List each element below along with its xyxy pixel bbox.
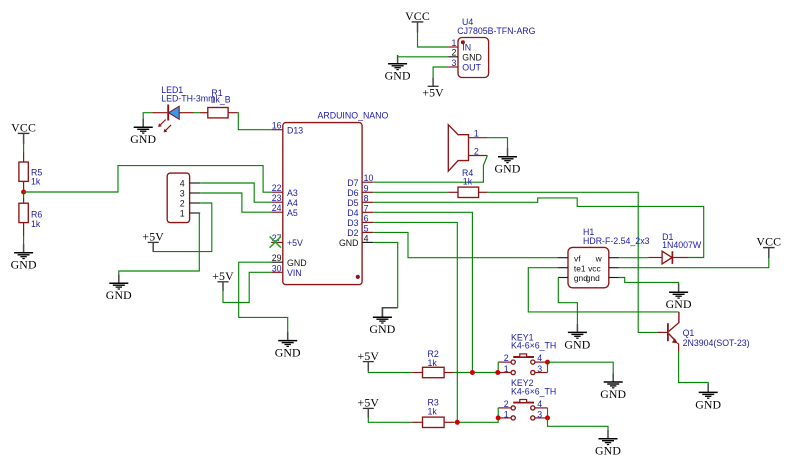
svg-text:30: 30 xyxy=(272,263,282,273)
wire H1 gnd(right) to ground xyxy=(619,278,679,285)
ground flag (KEY1) xyxy=(600,373,626,401)
svg-text:+5V: +5V xyxy=(287,238,303,248)
wire +5V to R3 xyxy=(368,418,412,422)
svg-text:VIN: VIN xyxy=(287,268,302,278)
resistor R5 xyxy=(19,153,42,192)
svg-text:1: 1 xyxy=(180,208,185,218)
pin 3 OUT (U4) xyxy=(448,58,481,73)
resistor R1 xyxy=(200,88,238,118)
ground flag (Q1 emitter) xyxy=(695,384,721,412)
pin 3 (KEY2) xyxy=(531,410,548,421)
svg-text:23: 23 xyxy=(272,193,282,203)
resistor R2 xyxy=(412,349,454,377)
node junction KEY2 pin3 xyxy=(545,415,550,420)
ground flag (H1 right gnd) xyxy=(666,284,692,312)
svg-text:1k_B: 1k_B xyxy=(211,95,231,105)
wire R5 to R6 xyxy=(23,191,25,198)
svg-text:4: 4 xyxy=(364,233,369,243)
svg-text:24: 24 xyxy=(272,203,282,213)
resistor R4 xyxy=(448,168,488,198)
wire KEY1 pin4 to GND xyxy=(548,362,614,373)
wire connector pin1 to GND xyxy=(119,213,200,275)
svg-text:10: 10 xyxy=(364,173,374,183)
svg-text:16: 16 xyxy=(272,121,282,131)
svg-text:D4: D4 xyxy=(347,208,358,218)
wire D6 pin9 to R4 xyxy=(373,191,448,193)
svg-text:1: 1 xyxy=(504,364,509,374)
node junction KEY1 pin1 xyxy=(495,370,500,375)
svg-text:LED-TH-3mm: LED-TH-3mm xyxy=(161,93,215,103)
power flag +5V (below U4 OUT) xyxy=(422,78,444,100)
svg-text:1k: 1k xyxy=(428,358,438,368)
wire H1 gnd(left) to ground xyxy=(558,278,577,324)
ground flag (speaker pin1) xyxy=(494,148,520,176)
wire VCC to R5 xyxy=(23,141,25,153)
wire R4 to Q1 base xyxy=(488,192,658,332)
wire R6 to GND xyxy=(23,237,25,245)
ground flag (U4 GND pin2) xyxy=(385,55,411,83)
pin 4 GND xyxy=(339,233,373,248)
pin 22 A3 xyxy=(271,183,298,198)
svg-text:1k: 1k xyxy=(31,177,41,187)
svg-text:4: 4 xyxy=(537,353,542,363)
svg-text:5: 5 xyxy=(364,223,369,233)
pin gnd (H1 right row3) xyxy=(586,273,619,283)
ground flag (H1 left gnd) xyxy=(564,324,590,352)
pin 1 (speaker) xyxy=(469,129,488,139)
wire KEY1 left pins xyxy=(497,362,499,372)
regulator U4 CJ7805B-TFN-ARG xyxy=(448,17,535,78)
pin 3 (connector) xyxy=(180,188,200,198)
pin 4 (KEY2) xyxy=(531,399,548,410)
pushbutton KEY2 K4-6x6_TH xyxy=(498,378,556,420)
wire H1 w to D1 anode xyxy=(619,257,648,259)
speaker xyxy=(448,125,487,172)
header H1 HDR-F-2.54_2x3 xyxy=(558,227,650,288)
MCU ARDUINO_NANO xyxy=(271,111,388,285)
power flag VCC net (right) xyxy=(756,235,781,259)
pin 1 IN (U4) xyxy=(448,38,471,53)
pushbutton KEY1 K4-6x6_TH xyxy=(498,332,556,374)
svg-text:D6: D6 xyxy=(347,188,358,198)
diode D1 1N4007W xyxy=(648,232,702,264)
svg-text:1k: 1k xyxy=(428,407,438,417)
pin 30 VIN xyxy=(271,263,301,278)
pin 8 D5 xyxy=(347,193,373,208)
node junction R5/R6/A3 xyxy=(21,190,26,195)
svg-text:w: w xyxy=(595,253,603,263)
pin 1 (connector) xyxy=(180,208,200,218)
svg-text:A5: A5 xyxy=(287,208,298,218)
svg-text:1: 1 xyxy=(504,410,509,420)
wire D5 pin8 to D1 cathode xyxy=(373,198,704,258)
pin 2 (KEY2) xyxy=(498,399,515,410)
pin gnd (H1 left row3) xyxy=(558,273,588,283)
svg-text:1N4007W: 1N4007W xyxy=(662,240,702,250)
transistor Q1 2N3904 xyxy=(658,312,750,352)
ground flag (connector pin1) xyxy=(106,275,132,303)
resistor R3 xyxy=(412,398,454,428)
pin vcc (H1 right row2) xyxy=(588,263,619,273)
svg-text:2: 2 xyxy=(451,48,456,58)
svg-text:ARDUINO_NANO: ARDUINO_NANO xyxy=(318,111,389,121)
pin 10 D7 xyxy=(347,173,373,188)
wire R1 to D13 pin16 xyxy=(238,113,272,130)
wire KEY2 left pins xyxy=(497,408,499,418)
svg-text:1: 1 xyxy=(451,38,456,48)
svg-text:D3: D3 xyxy=(347,218,358,228)
pin 7 D4 xyxy=(347,203,373,218)
pin 5 D2 xyxy=(347,223,373,238)
svg-text:1: 1 xyxy=(474,129,479,139)
power flag +5V (to VIN) xyxy=(212,269,234,291)
svg-text:1k: 1k xyxy=(463,176,473,186)
svg-text:4: 4 xyxy=(537,399,542,409)
pin 4 (KEY1) xyxy=(531,353,548,364)
wire LED to R1 xyxy=(194,112,201,114)
no-connect X (pin 27) xyxy=(270,236,281,247)
pin 1 (KEY1) xyxy=(498,364,515,375)
ground flag (pin29) xyxy=(275,332,301,360)
resistor R6 xyxy=(19,198,42,237)
svg-text:GND: GND xyxy=(339,238,359,248)
pin 23 A4 xyxy=(271,193,298,208)
pin 1 (KEY2) xyxy=(498,410,515,421)
svg-text:9: 9 xyxy=(364,183,369,193)
pin 2 (speaker) xyxy=(469,146,488,156)
wire R2 to KEY1 xyxy=(454,372,497,374)
svg-text:2: 2 xyxy=(504,399,509,409)
wire pin4 GND to ground xyxy=(373,242,398,307)
svg-text:vcc: vcc xyxy=(588,263,601,273)
node junction D3/R3 xyxy=(455,420,460,425)
power flag +5V (R3) xyxy=(358,396,380,418)
wire H1 vcc to VCC xyxy=(619,258,769,268)
wire KEY1 right pins xyxy=(547,362,549,372)
pin 2 GND (U4) xyxy=(448,48,482,63)
wire junction to A3 xyxy=(24,166,272,193)
power flag +5V (R2) xyxy=(358,349,380,371)
pin 2 (KEY1) xyxy=(498,353,515,364)
svg-text:GND: GND xyxy=(462,52,482,62)
svg-text:K4-6×6_TH: K4-6×6_TH xyxy=(511,341,556,351)
pin 9 D6 xyxy=(347,183,373,198)
svg-text:D13: D13 xyxy=(287,125,303,135)
wire KEY2 pin3 to GND xyxy=(548,418,609,430)
svg-text:A4: A4 xyxy=(287,198,298,208)
pin 24 A5 xyxy=(271,203,298,218)
svg-text:CJ7805B-TFN-ARG: CJ7805B-TFN-ARG xyxy=(457,26,535,36)
node junction D4/R2 xyxy=(470,370,475,375)
svg-text:D7: D7 xyxy=(347,178,358,188)
svg-text:6: 6 xyxy=(364,213,369,223)
svg-text:3: 3 xyxy=(451,58,456,68)
wire connector pin3 to A5 xyxy=(200,193,271,212)
wire connector pin2 to +5V xyxy=(153,203,212,252)
wire +5V to R2 xyxy=(368,371,412,372)
svg-text:22: 22 xyxy=(272,183,282,193)
svg-text:2: 2 xyxy=(504,353,509,363)
node junction KEY2 pin1 xyxy=(496,415,501,420)
svg-text:4: 4 xyxy=(180,178,185,188)
svg-text:2N3904(SOT-23): 2N3904(SOT-23) xyxy=(683,338,750,348)
pin 27 +5V xyxy=(271,233,303,248)
svg-text:3: 3 xyxy=(180,188,185,198)
ground flag (LED cathode) xyxy=(130,119,156,147)
svg-text:vf: vf xyxy=(574,253,581,263)
svg-text:2: 2 xyxy=(474,146,479,156)
svg-text:OUT: OUT xyxy=(462,63,481,73)
svg-text:te1: te1 xyxy=(574,263,586,273)
wire speaker pin1 to GND xyxy=(487,138,507,149)
wire H1 te1 to Q1 collector xyxy=(528,268,679,312)
wire D2 pin5 to H1 xyxy=(373,232,558,257)
pin w (H1 right row1) xyxy=(595,253,619,263)
wire speaker pin2 to D7 pin10 xyxy=(373,156,487,183)
pin 4 (connector) xyxy=(180,178,200,188)
svg-text:HDR-F-2.54_2x3: HDR-F-2.54_2x3 xyxy=(583,236,650,246)
power flag +5V (connector pin2) xyxy=(142,230,164,252)
wire GND pin29 to ground xyxy=(239,262,288,332)
svg-text:29: 29 xyxy=(272,253,282,263)
wire connector pin4 to A4 xyxy=(200,183,271,202)
ground flag (below R6) xyxy=(11,244,37,272)
svg-text:8: 8 xyxy=(364,193,369,203)
wire KEY2 right pins xyxy=(547,408,549,418)
node junction KEY1 pin4 xyxy=(545,360,550,365)
wire +5V to VIN pin30 xyxy=(223,272,271,302)
svg-text:2: 2 xyxy=(180,198,185,208)
pin 29 GND xyxy=(271,253,306,268)
connector (4-pin header) xyxy=(167,173,200,223)
wire D3 pin6 to R3 node xyxy=(373,222,457,422)
svg-text:3: 3 xyxy=(537,364,542,374)
svg-text:D5: D5 xyxy=(347,198,358,208)
LED LED1 xyxy=(152,85,215,132)
wire Q1 emitter to GND xyxy=(679,352,709,385)
svg-text:GND: GND xyxy=(287,258,307,268)
svg-text:gnd: gnd xyxy=(586,273,600,283)
pin 2 (connector) xyxy=(180,198,200,208)
pin vf (H1 left row1) xyxy=(558,253,581,263)
wire LED to GND xyxy=(143,113,152,119)
svg-text:Q1: Q1 xyxy=(683,328,695,338)
svg-text:D2: D2 xyxy=(347,228,358,238)
power flag VCC net (top, to U4) xyxy=(405,9,430,33)
ground flag (KEY2) xyxy=(595,430,621,458)
svg-text:+5V: +5V xyxy=(422,85,444,99)
svg-text:A3: A3 xyxy=(287,188,298,198)
pin te1 (H1 left row2) xyxy=(558,263,586,273)
svg-text:IN: IN xyxy=(462,42,471,52)
svg-text:3: 3 xyxy=(537,410,542,420)
pin 3 (KEY1) xyxy=(531,364,548,375)
svg-text:K4-6×6_TH: K4-6×6_TH xyxy=(511,386,556,396)
wire R3 to KEY2 xyxy=(454,418,498,422)
wire D4 pin7 to R2 node xyxy=(373,212,472,372)
svg-text:7: 7 xyxy=(364,203,369,213)
pin 16 D13 xyxy=(271,121,303,136)
power flag VCC net (left) xyxy=(11,120,36,144)
svg-text:1k: 1k xyxy=(31,219,41,229)
wire U4 GND to ground xyxy=(398,55,449,56)
wire VCC to U4 IN xyxy=(418,32,449,47)
ground flag (Arduino pin4) xyxy=(369,308,397,336)
pin 6 D3 xyxy=(347,213,373,228)
wire U4 OUT to +5V xyxy=(433,67,448,78)
